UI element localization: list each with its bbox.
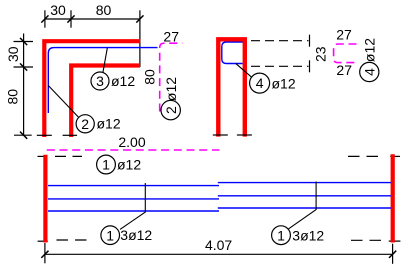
svg-text:ø12: ø12 xyxy=(97,116,121,132)
svg-text:1: 1 xyxy=(277,227,285,243)
svg-text:ø12: ø12 xyxy=(272,76,296,92)
label circle 3 xyxy=(91,72,109,90)
rotated label circle 2 xyxy=(161,100,180,119)
bottom bars group 1 (left, 3 bars) xyxy=(48,186,219,211)
svg-text:80: 80 xyxy=(5,89,21,105)
beam bottom edge dashed (left) xyxy=(57,239,91,241)
svg-text:4.07: 4.07 xyxy=(205,237,232,253)
svg-text:80: 80 xyxy=(96,2,112,18)
svg-text:30: 30 xyxy=(50,2,66,18)
magenta dashed C-shape (bar 4 shape) xyxy=(334,44,357,63)
svg-text:27: 27 xyxy=(336,26,352,42)
end tick lower xyxy=(309,60,311,72)
leader for label 1 (right) xyxy=(289,182,317,229)
bottom tick under right leg xyxy=(237,134,252,136)
svg-text:ø12: ø12 xyxy=(361,38,377,62)
svg-text:2.00: 2.00 xyxy=(118,134,145,150)
bar 2 red L-bar outer xyxy=(44,41,140,137)
leader for label 2 xyxy=(48,86,79,118)
leader for label 3 xyxy=(103,48,107,72)
bar 3 thin blue bar (inside corner) xyxy=(48,48,157,113)
svg-text:2: 2 xyxy=(81,116,89,132)
dashed projection line upper xyxy=(251,40,309,42)
end tick upper xyxy=(309,35,311,47)
svg-text:ø12: ø12 xyxy=(163,77,179,101)
right support red bar xyxy=(391,154,395,242)
svg-text:1: 1 xyxy=(106,227,114,243)
magenta dashed extension of bar 2 xyxy=(160,43,183,111)
svg-text:27: 27 xyxy=(163,28,179,44)
svg-text:27: 27 xyxy=(336,62,352,78)
tick at left support top xyxy=(38,155,48,157)
magenta dashed line 2.00 xyxy=(47,149,220,151)
bottom tick under left leg xyxy=(213,134,228,136)
svg-text:ø12: ø12 xyxy=(111,73,135,89)
svg-text:3: 3 xyxy=(96,73,104,89)
left support red bar xyxy=(43,155,47,243)
rotated label circle 4 xyxy=(360,62,379,81)
tick at right support bottom xyxy=(389,240,401,242)
label circle 1 (top) xyxy=(97,155,116,174)
label circle 2 xyxy=(76,115,94,133)
svg-text:2: 2 xyxy=(163,106,179,114)
label circle 1 (bottom left) xyxy=(101,226,120,245)
bar 4 thin blue hairpin xyxy=(222,42,247,64)
red U-bar (inverted U) xyxy=(218,39,245,136)
bottom tick under outer bar xyxy=(37,134,52,136)
svg-text:4: 4 xyxy=(361,68,377,76)
bar 3 red L-bar inner xyxy=(71,66,140,138)
tick marks left dimension xyxy=(20,38,27,139)
tick at right support top xyxy=(390,155,400,157)
svg-text:1: 1 xyxy=(102,157,110,173)
tick marks top dimension xyxy=(41,15,143,22)
label circle 4 xyxy=(250,73,270,93)
tick marks bottom dimension xyxy=(41,251,396,258)
tick at left support bottom xyxy=(38,240,48,242)
svg-text:23: 23 xyxy=(313,46,329,62)
svg-text:80: 80 xyxy=(141,69,157,85)
dimension line top (30 / 80) xyxy=(45,10,140,67)
leader for label 4 xyxy=(236,63,252,77)
svg-text:3ø12: 3ø12 xyxy=(120,227,152,243)
beam top edge dashed (right) xyxy=(348,155,385,157)
label circle 1 (bottom right) xyxy=(272,226,291,245)
bottom bars group 2 (right, 3 bars) xyxy=(218,183,391,208)
beam bottom edge dashed (right) xyxy=(351,239,385,241)
dimension line bottom 4.07 xyxy=(45,243,393,264)
dashed projection line lower xyxy=(251,65,309,67)
leader for label 1 (left) xyxy=(120,183,145,229)
bottom tick under inner bar xyxy=(63,134,78,136)
svg-text:3ø12: 3ø12 xyxy=(292,227,324,243)
beam top edge dashed (left) xyxy=(55,155,82,157)
svg-text:4: 4 xyxy=(256,75,264,91)
svg-text:ø12: ø12 xyxy=(117,157,141,173)
svg-text:30: 30 xyxy=(5,46,21,62)
dimension line left (30 / 80) xyxy=(14,34,34,136)
